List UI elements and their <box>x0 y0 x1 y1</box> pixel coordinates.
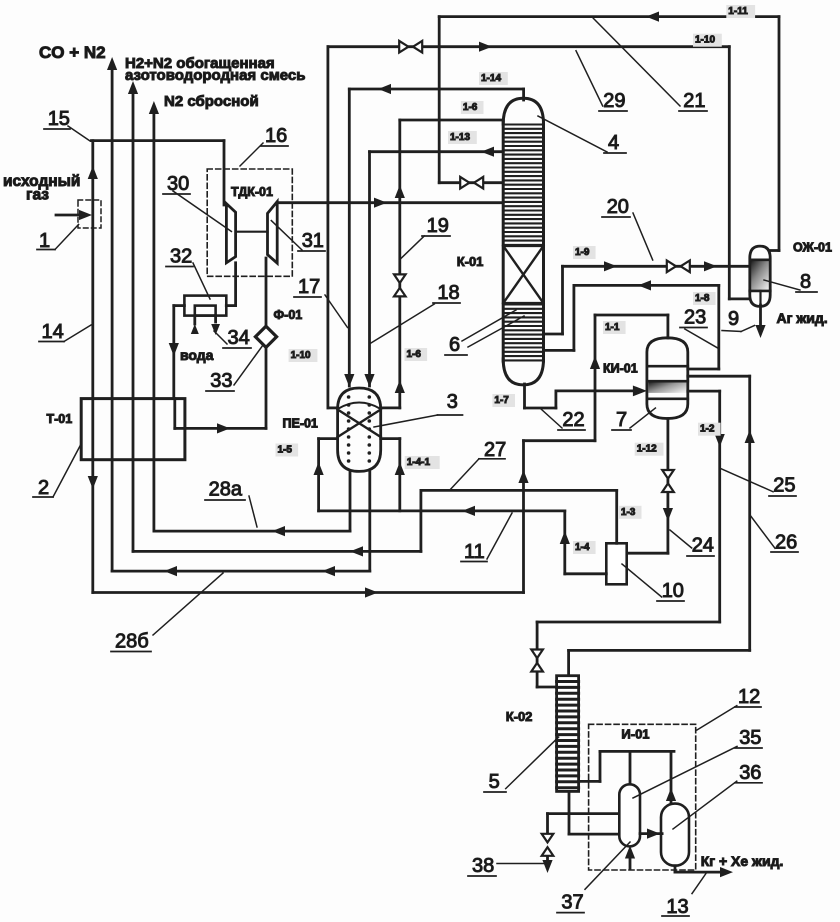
svg-text:9: 9 <box>728 308 739 330</box>
wire stream 1-6 (ПЕ-01 to K-01) w/ valve <box>381 120 504 408</box>
svg-text:37: 37 <box>561 892 583 914</box>
svg-text:3: 3 <box>447 391 458 413</box>
wire 35 to 36 <box>640 829 662 839</box>
svg-text:Ф-01: Ф-01 <box>274 308 303 322</box>
wire stream 1-10 top header <box>328 42 750 299</box>
svg-text:1-9: 1-9 <box>575 247 590 258</box>
wire compressor discharge y=203 <box>277 198 503 208</box>
svg-text:газ: газ <box>26 187 49 204</box>
wire stream 11 (y=511) <box>319 506 565 516</box>
svg-text:Аг жид.: Аг жид. <box>777 310 828 326</box>
wire vessel 36 top pipe <box>666 751 676 803</box>
svg-text:4: 4 <box>608 132 619 154</box>
svg-text:2: 2 <box>38 477 49 499</box>
svg-text:ОЖ-01: ОЖ-01 <box>793 241 832 255</box>
wire stream 1-9 (K-01 to ОЖ-01) <box>544 261 750 334</box>
wire expander outlet to cooler <box>226 263 235 306</box>
valve before K-01 <box>460 177 483 189</box>
wire cooler outlet down to T-01 <box>169 306 185 399</box>
svg-text:22: 22 <box>562 409 584 431</box>
svg-text:5: 5 <box>489 771 500 793</box>
wire stream 1-10 riser from ПЕ-01 <box>328 47 338 408</box>
svg-text:8: 8 <box>800 271 811 293</box>
svg-text:1-12: 1-12 <box>637 444 657 455</box>
wire Kr+Xe product 13 <box>675 866 733 878</box>
svg-text:14: 14 <box>42 321 64 343</box>
shaft <box>236 231 268 233</box>
svg-text:1-3: 1-3 <box>621 507 636 518</box>
valve 38 <box>542 834 554 856</box>
turbo-expander 30 <box>226 204 235 263</box>
svg-text:30: 30 <box>167 173 189 195</box>
svg-text:31: 31 <box>302 230 324 252</box>
svg-text:28а: 28а <box>209 479 243 501</box>
svg-text:7: 7 <box>616 409 627 431</box>
svg-text:вода: вода <box>180 347 214 363</box>
wire feed pipe x=93 (stream 1/14) <box>88 141 98 593</box>
compressor 31 <box>268 202 278 264</box>
svg-text:1-1: 1-1 <box>605 322 620 333</box>
heater ПЕ-01 (3) <box>338 388 381 471</box>
svg-text:32: 32 <box>170 246 192 268</box>
svg-text:CO + N2: CO + N2 <box>39 43 106 62</box>
svg-text:КИ-01: КИ-01 <box>603 362 638 376</box>
wire liquid argon outlet 9 <box>755 305 765 338</box>
wire stream 1-4 (separator 10 out) <box>560 511 607 574</box>
dashed boundary И-01 (12) <box>589 724 696 870</box>
wire cooled gas to filter y=428 <box>185 423 266 433</box>
vessel 35 <box>619 784 640 846</box>
valve on 1-10 header <box>399 41 422 53</box>
wire stream 1-1 (loop gas up to КИ-01) <box>518 315 668 593</box>
svg-text:24: 24 <box>692 535 714 557</box>
wire drain 38 w/ valve <box>542 814 552 873</box>
svg-text:1-4-1: 1-4-1 <box>407 457 431 468</box>
svg-text:N2 сбросной: N2 сбросной <box>164 93 259 110</box>
svg-text:29: 29 <box>603 90 625 112</box>
svg-text:1-6: 1-6 <box>463 102 478 113</box>
svg-text:34: 34 <box>228 327 250 349</box>
svg-text:6: 6 <box>449 334 460 356</box>
svg-text:13: 13 <box>666 896 688 917</box>
wire ПЕ-01 right-bottom inlet 1-4-1 <box>381 439 405 511</box>
wire loop 28a (y=531) <box>154 526 350 536</box>
wire stream 1-14 (K-01 top to ПЕ-01) <box>344 84 523 387</box>
column K-02 (5) <box>557 676 579 792</box>
wire ПЕ-01 left-bottom inlet 1-5 <box>314 439 338 511</box>
wire stream 1-12 (КИ-01 bottoms) w/ valve <box>627 419 673 554</box>
svg-text:26: 26 <box>775 531 797 553</box>
svg-text:азотоводородная смесь: азотоводородная смесь <box>125 67 306 84</box>
svg-text:1-8: 1-8 <box>695 293 710 304</box>
svg-text:35: 35 <box>739 727 761 749</box>
svg-text:ПЕ-01: ПЕ-01 <box>283 417 318 431</box>
wire K-02 bottoms <box>569 791 620 834</box>
wire stream 1-11 header <box>439 12 779 251</box>
condenser ОЖ-01 (8) <box>750 246 770 306</box>
wire loop 28б (y=571) <box>112 566 370 576</box>
wire K-02 side draw to И-01 <box>579 751 674 781</box>
separator 10 <box>606 543 626 584</box>
svg-text:1-14: 1-14 <box>481 73 501 84</box>
wire CO+N2 product pipe <box>107 57 117 571</box>
svg-text:16: 16 <box>265 125 287 147</box>
svg-text:К-02: К-02 <box>506 709 533 724</box>
svg-text:Кг + Хе жид.: Кг + Хе жид. <box>701 853 784 869</box>
svg-text:ТДК-01: ТДК-01 <box>231 185 273 199</box>
svg-text:1-5: 1-5 <box>278 445 293 456</box>
svg-text:1-10: 1-10 <box>291 350 311 361</box>
column K-01 <box>503 98 543 385</box>
svg-text:27: 27 <box>484 439 506 461</box>
wire vessel 35 top pipe <box>629 751 632 784</box>
svg-text:11: 11 <box>464 541 485 563</box>
svg-text:1-10: 1-10 <box>695 35 715 46</box>
svg-text:21: 21 <box>683 90 705 112</box>
wire stream 1-13 (K-01 to ПЕ-01) <box>364 147 503 387</box>
wire inlet 37 into vessel 35 bottom <box>625 846 635 870</box>
svg-text:К-01: К-01 <box>457 254 484 269</box>
svg-text:1-7: 1-7 <box>494 395 509 406</box>
vessel 36 <box>661 804 689 866</box>
svg-text:12: 12 <box>738 686 760 708</box>
svg-text:36: 36 <box>739 762 761 784</box>
svg-text:1-6: 1-6 <box>407 349 422 360</box>
svg-text:1-2: 1-2 <box>700 424 715 435</box>
valve on 1-9 <box>667 261 690 273</box>
svg-text:23: 23 <box>684 307 706 329</box>
heat exchanger T-01 <box>81 399 185 460</box>
node feed inlet 1 (dashed tie-in) <box>78 200 101 228</box>
wire stream 1-8 return (КИ-01 to K-01) <box>544 280 719 369</box>
wire ПЕ-01 bottom outlet pipes <box>350 471 370 571</box>
svg-text:25: 25 <box>773 475 795 497</box>
valve 24 on 1-12 <box>662 470 674 492</box>
svg-text:33: 33 <box>210 370 232 392</box>
wire cooling water inlet <box>191 316 199 334</box>
wire stream 1-3 (to separator 10) <box>421 490 617 543</box>
svg-text:28б: 28б <box>115 631 149 653</box>
wire 1-11 drop into K-01 w/ valve <box>439 17 503 183</box>
filter Ф-01 (diamond) <box>255 258 276 428</box>
svg-text:10: 10 <box>662 580 684 602</box>
wire feed arrow <box>56 210 92 220</box>
wire cooling water outlet <box>211 316 220 335</box>
svg-text:И-01: И-01 <box>621 727 649 742</box>
wire expander feed header y=141 <box>91 141 224 205</box>
water cooler 32 <box>184 296 226 316</box>
wire H2+N2 return loop (y=551) <box>133 490 421 556</box>
svg-text:38: 38 <box>472 855 494 877</box>
svg-text:18: 18 <box>437 282 459 304</box>
svg-text:1-13: 1-13 <box>450 132 470 143</box>
wire K-01 bottoms stream 1-7/22 <box>525 384 647 408</box>
wire K-02 overhead up to КИ-01 <box>569 376 755 676</box>
wire N2 vent pipe <box>149 101 159 531</box>
svg-text:20: 20 <box>607 196 629 218</box>
vessel КИ-01 (7) <box>647 338 688 419</box>
wire feed loop (y=592) <box>93 587 524 597</box>
valve on K-02 feed <box>531 650 543 672</box>
svg-text:Т-01: Т-01 <box>47 412 73 426</box>
wire vessel 35 upper-left line to drain <box>548 812 621 815</box>
valve 19 on 1-6 riser <box>394 274 406 296</box>
dashed boundary 16 of turbo set <box>207 169 292 276</box>
text equipment tags <box>47 185 832 742</box>
stream number tags <box>276 5 756 554</box>
svg-text:1-11: 1-11 <box>728 6 748 17</box>
svg-text:19: 19 <box>427 215 449 237</box>
wire H2+N2 product pipe <box>128 81 138 551</box>
svg-text:15: 15 <box>48 108 70 130</box>
svg-text:1-4: 1-4 <box>575 542 590 553</box>
wire stream 1-2 (КИ-01 to K-02) <box>537 391 725 687</box>
svg-text:17: 17 <box>298 276 320 298</box>
